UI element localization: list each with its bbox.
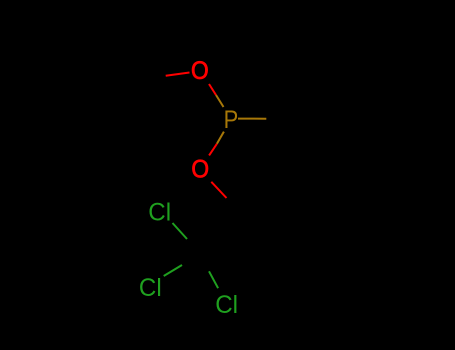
wire: bond P-O2, red half near O2	[209, 144, 217, 156]
wire: bond O1-P, olive half near P	[216, 95, 224, 107]
wire: bond O1-P, red half near O1	[209, 84, 216, 95]
wire: bond Cl2-C2 (green half near Cl2)	[164, 265, 182, 276]
wire: bond CH3-O1 (red half)	[166, 73, 190, 76]
svg-text:P: P	[224, 106, 239, 134]
svg-text:Cl: Cl	[139, 274, 162, 302]
wire: bond P-CH3 (olive half near P)	[238, 118, 266, 120]
wire: bond P-O2, olive half near P	[217, 132, 224, 144]
wire: bond Cl3-C2 (green half near Cl3)	[209, 271, 218, 288]
svg-text:O: O	[191, 155, 209, 183]
svg-text:O: O	[191, 57, 209, 85]
wire: bond O2-C1 (red half near O2)	[211, 182, 226, 198]
wire: bond Cl1-C2 (green half near Cl1)	[173, 223, 188, 239]
svg-text:Cl: Cl	[215, 291, 238, 319]
svg-text:Cl: Cl	[148, 199, 171, 227]
